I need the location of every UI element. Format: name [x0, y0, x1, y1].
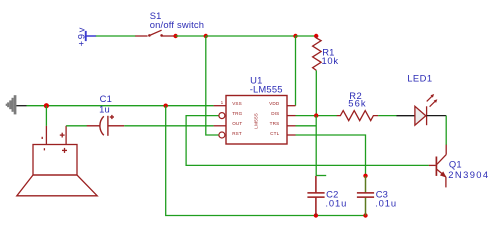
wire TRS to node: [296, 125, 317, 127]
power symbol +9V: [75, 26, 96, 46]
svg-text:10k: 10k: [322, 55, 339, 66]
pin RST bubble: [219, 132, 225, 138]
junction C3 ground: [363, 213, 367, 217]
svg-text:LM555: LM555: [254, 113, 259, 129]
wire to VDD: [295, 36, 297, 106]
pin TRG bubble: [219, 113, 225, 119]
pin TRS: [287, 125, 296, 127]
wire TRG net: [186, 116, 429, 166]
svg-text:OUT: OUT: [232, 121, 242, 126]
wire DIS to node: [296, 115, 338, 117]
wire: [296, 35, 317, 37]
pin CTL: [287, 134, 296, 136]
svg-text:TRG: TRG: [232, 111, 242, 116]
svg-text:VSS: VSS: [232, 101, 242, 106]
pin VDD: [287, 105, 296, 107]
junction: [44, 103, 49, 108]
svg-text:C1: C1: [100, 93, 112, 104]
ground pin: [16, 105, 26, 107]
ground: [6, 95, 17, 114]
junction: [314, 34, 318, 38]
svg-text:1u: 1u: [99, 104, 110, 115]
wire +9V to switch: [96, 35, 136, 37]
wire ground rail to VSS: [27, 105, 214, 107]
svg-text:VDD: VDD: [269, 101, 280, 106]
wire down to Q1 collector: [445, 116, 447, 145]
wire speaker right pin to C1: [66, 125, 87, 127]
resistor R1: [313, 36, 322, 70]
svg-text:LED1: LED1: [407, 73, 432, 84]
svg-text:RST: RST: [232, 131, 242, 136]
wire top rail: [206, 35, 296, 37]
LED1: [415, 94, 437, 125]
junction C3 top: [363, 174, 367, 178]
svg-text:TRS: TRS: [270, 121, 280, 126]
wire R1 to DIS node: [315, 70, 317, 115]
svg-text:.01u: .01u: [375, 198, 397, 209]
junction DIS node: [314, 113, 318, 117]
junction C2 ground: [314, 213, 318, 217]
svg-text:2N3904: 2N3904: [448, 169, 489, 180]
junction: [293, 34, 297, 38]
wire speaker left pin (net part): [45, 106, 47, 126]
switch S1: [135, 30, 175, 37]
wire CTL to C3: [296, 135, 366, 176]
capacitor C1: [87, 115, 124, 136]
wire to RST: [206, 36, 219, 135]
svg-text:56k: 56k: [348, 98, 366, 109]
junction: [204, 34, 208, 38]
pin DIS: [287, 115, 296, 117]
junction: [173, 34, 177, 38]
op-amp U1 LM555 box: [226, 96, 287, 145]
wire stub: [316, 175, 326, 177]
wire down-left vertical to bottom rail: [166, 106, 366, 216]
pin OUT: [214, 125, 226, 127]
svg-text:DIS: DIS: [271, 111, 279, 116]
wire (dark) to LED anode: [397, 115, 415, 117]
capacitor C2: [307, 176, 324, 216]
svg-text:.01u: .01u: [325, 198, 347, 209]
svg-text:-LM555: -LM555: [250, 84, 283, 95]
wire DIS node down to C2: [315, 116, 317, 176]
junction: [164, 104, 168, 108]
speaker SP1: [17, 126, 97, 196]
wire: [176, 35, 206, 37]
capacitor C3: [357, 176, 374, 216]
transistor Q1: [429, 145, 447, 188]
pin VSS: [214, 105, 226, 107]
resistor R2: [337, 111, 378, 121]
svg-text:CTL: CTL: [270, 131, 279, 136]
svg-text:+9v: +9v: [75, 26, 86, 46]
svg-text:on/off switch: on/off switch: [150, 19, 205, 30]
wire C1 to OUT: [124, 125, 214, 127]
wire R2 to LED: [378, 115, 397, 117]
wire (dark) LED cathode to corner: [427, 115, 447, 117]
svg-text:Q1: Q1: [449, 158, 462, 169]
